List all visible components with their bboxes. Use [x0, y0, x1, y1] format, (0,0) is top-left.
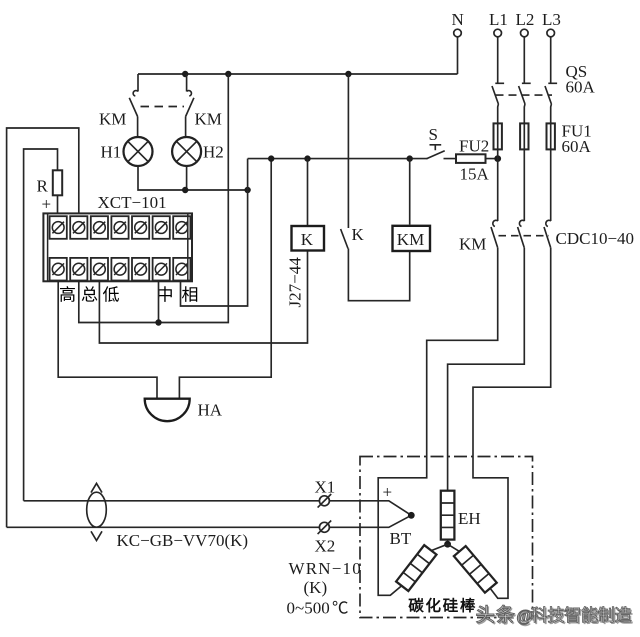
- wire star to right element: [448, 544, 460, 551]
- svg-text:KC−GB−VV70(K): KC−GB−VV70(K): [117, 531, 249, 550]
- lamp H2: [172, 137, 201, 166]
- svg-text:@: @: [517, 606, 533, 625]
- terminal X1: [319, 496, 329, 506]
- contactor KM main contact 1: [493, 220, 498, 226]
- wire FU1 to KM contacts: [498, 149, 551, 221]
- wire b2 to riser 228: [79, 74, 229, 323]
- control line: [248, 158, 428, 160]
- wire S to FU2: [444, 158, 498, 160]
- wire L1 jog to furnace: [378, 248, 498, 596]
- svg-text:S: S: [429, 125, 438, 144]
- svg-text:KM: KM: [195, 110, 222, 129]
- svg-text:BT: BT: [390, 529, 412, 548]
- contactor coil KM: [393, 226, 431, 251]
- switch QS pole 3: [545, 83, 557, 104]
- svg-text:X2: X2: [315, 537, 336, 556]
- wire KM coil top: [409, 159, 411, 225]
- furnace enclosure (dash-dot): [360, 457, 533, 618]
- wire L3 drop: [550, 37, 552, 84]
- wire b6 drop (中): [158, 281, 160, 322]
- wire L2 jog to EH: [448, 248, 525, 491]
- wire K contact riser: [347, 74, 349, 228]
- node junction top-228: [225, 71, 231, 77]
- terminal N: [454, 29, 462, 37]
- node junction lamp-H2 bottom: [182, 187, 188, 193]
- terminal L1: [494, 29, 502, 37]
- terminal X2: [319, 522, 329, 532]
- relay coil K: [292, 226, 325, 251]
- label 高: [60, 286, 75, 302]
- resistor R: [53, 170, 62, 195]
- wire H2 branch drop: [186, 74, 188, 92]
- dashed linkage lamp contacts: [141, 106, 185, 108]
- fuse FU1 pole 1: [494, 123, 502, 149]
- label 相: [182, 286, 197, 302]
- label 中: [158, 286, 172, 302]
- svg-text:J27−44: J27−44: [286, 257, 305, 308]
- heater EH (middle element): [441, 491, 455, 540]
- node junction control tap on L1: [494, 155, 501, 162]
- fuse FU2 15A: [456, 154, 486, 163]
- wire N riser: [457, 37, 459, 74]
- svg-text:L1: L1: [489, 10, 508, 29]
- svg-text:N: N: [452, 10, 464, 29]
- node junction top-K: [345, 71, 351, 77]
- fuse FU1 pole 2: [520, 123, 528, 149]
- top bus wire (N net): [138, 73, 458, 75]
- svg-text:+: +: [383, 483, 393, 502]
- wire b1 to bell left: [58, 281, 157, 399]
- cable marker chevrons: [91, 483, 102, 540]
- node BT junction: [408, 512, 415, 519]
- wire lamp bottom bus: [138, 166, 248, 190]
- svg-text:X1: X1: [315, 478, 336, 497]
- wire L2 drop: [523, 37, 525, 84]
- wire b3 to K coil bottom: [99, 251, 307, 344]
- wire K coil top: [307, 159, 309, 226]
- contact K (NO): [341, 229, 348, 249]
- contact KM aux 2 (lamp H2): [187, 91, 192, 97]
- svg-text:+: +: [42, 195, 52, 214]
- lamp H1: [124, 137, 153, 166]
- watermark 头条@科技智能制造: [478, 606, 633, 626]
- terminal L3: [547, 29, 555, 37]
- wire EH bottom to star point: [447, 540, 449, 545]
- svg-text:WRN−10: WRN−10: [289, 559, 362, 578]
- node star point: [444, 541, 451, 548]
- contact KM aux 1 (lamp H1): [133, 91, 138, 97]
- label 总: [82, 286, 98, 301]
- svg-text:60A: 60A: [566, 78, 596, 97]
- svg-text:0~500: 0~500: [287, 599, 330, 618]
- node junction K coil top: [304, 155, 310, 161]
- svg-text:FU2: FU2: [459, 137, 489, 156]
- svg-text:KM: KM: [397, 230, 424, 249]
- terminal block XCT-101 outer: [43, 213, 192, 281]
- node junction b6/b2: [155, 319, 161, 325]
- wire rail to X1 (R top bracket): [24, 149, 58, 501]
- dashed linkage QS: [496, 94, 553, 96]
- svg-text:K: K: [352, 225, 365, 244]
- wire X2 to BT: [7, 515, 412, 527]
- cable marker ellipse: [87, 492, 107, 527]
- node junction x247 lamp bus: [244, 187, 250, 193]
- contactor KM main contact 2: [519, 220, 524, 226]
- svg-text:L2: L2: [516, 10, 535, 29]
- label 低: [103, 286, 119, 302]
- svg-text:(K): (K): [304, 578, 328, 597]
- svg-text:15A: 15A: [460, 165, 490, 184]
- wire H1 branch drop: [137, 74, 139, 92]
- svg-text:H2: H2: [203, 143, 224, 162]
- svg-text:L3: L3: [542, 10, 561, 29]
- wire bell right to control line: [179, 159, 271, 400]
- wire X1 to BT: [24, 501, 412, 516]
- svg-text:KM: KM: [459, 235, 486, 254]
- wire R bottom to terminal1: [57, 195, 59, 215]
- node junction KM coil top: [407, 155, 413, 161]
- heater element left (carbide rod): [396, 545, 436, 591]
- contactor KM main contact 3: [546, 220, 551, 226]
- terminal block screws: [48, 213, 191, 281]
- switch QS pole 2: [519, 83, 531, 104]
- wire b7 to control line corner: [181, 159, 248, 306]
- node junction top-H2: [182, 71, 188, 77]
- wire rail to X2 (terminal2 bracket): [7, 128, 79, 527]
- svg-text:R: R: [37, 177, 49, 196]
- svg-text:CDC10−40: CDC10−40: [556, 229, 635, 248]
- wire L1 drop: [497, 37, 499, 84]
- node junction bell branch: [268, 155, 274, 161]
- svg-text:60A: 60A: [562, 137, 592, 156]
- bell HA: [145, 399, 190, 422]
- fuse FU1 pole 3: [547, 123, 555, 149]
- heater element right (carbide rod): [454, 546, 497, 593]
- wire L3 jog to furnace: [473, 248, 551, 599]
- dashed linkage KM main: [499, 235, 550, 237]
- svg-text:XCT−101: XCT−101: [98, 193, 167, 212]
- wire star to left element: [431, 544, 447, 550]
- svg-text:KM: KM: [99, 110, 126, 129]
- svg-text:K: K: [301, 230, 314, 249]
- terminal L2: [521, 29, 529, 37]
- wire H2 contact to lamp: [185, 117, 187, 138]
- switch QS pole 1: [492, 83, 504, 104]
- label 碳化硅棒: [409, 598, 424, 612]
- svg-text:H1: H1: [101, 143, 122, 162]
- svg-text:EH: EH: [458, 509, 481, 528]
- wire K contact bottom to KM coil bottom: [348, 249, 409, 301]
- wire H1 contact to lamp: [137, 117, 139, 138]
- svg-text:HA: HA: [198, 401, 223, 420]
- wire QS to FU1: [498, 104, 552, 123]
